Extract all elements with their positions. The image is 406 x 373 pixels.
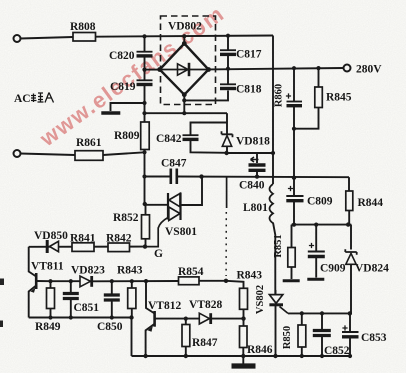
node x273 y153 (271, 151, 275, 155)
capacitor C852 (313, 331, 331, 336)
node C809 tap (292, 176, 296, 180)
node VS801 left (143, 202, 147, 206)
wire rail2 a (145, 176, 171, 178)
capacitor C850 (104, 295, 120, 300)
wire C851 top lead (70, 281, 72, 293)
wire VS801 left (145, 204, 168, 206)
wire R845 bottom (294, 108, 319, 129)
wire C808 down to rail2 (293, 106, 295, 178)
transistor VT811 (35, 273, 38, 289)
wire AC down x273 (272, 36, 274, 154)
wire gate rail (288, 312, 350, 314)
node VS802 cathode (273, 354, 277, 358)
node C809 bottom (292, 223, 296, 227)
wire C840 bottom (256, 170, 258, 176)
diode VD823 (80, 276, 91, 287)
capacitor C808 (electrolytic) (287, 102, 303, 106)
node ground tap (241, 354, 245, 358)
node C851 top (69, 279, 73, 283)
wire x273 to L801 (272, 153, 274, 184)
wire R850 bottom lead (301, 347, 303, 356)
wire C851 bottom lead (70, 299, 72, 318)
wire VD824 bottom lead (350, 264, 351, 313)
diode VT828 (199, 313, 209, 324)
node VT812 emitter bottom (143, 354, 147, 358)
wire rail4 down (131, 318, 133, 357)
capacitor C820 (137, 52, 153, 56)
wire VT812 collector (146, 281, 155, 313)
node y113 (142, 111, 146, 115)
bridge center line (160, 69, 209, 71)
node bridge top vertex (182, 41, 187, 46)
wire VT811 collector (29, 247, 37, 277)
capacitor C842 (183, 135, 199, 139)
wire R847 top lead (185, 319, 187, 325)
VT812 emitter arrow (148, 326, 153, 332)
node C850 top (110, 279, 114, 283)
wire VS802 cathode down (275, 305, 277, 356)
terminal 280V (344, 65, 351, 72)
capacitor C818 (220, 84, 236, 88)
ground left (101, 111, 120, 114)
polarity + C853 (342, 325, 347, 330)
resistor R846 (240, 326, 248, 348)
resistor R842 (108, 243, 130, 252)
resistor R809 (141, 122, 150, 150)
node R861 join (142, 150, 146, 154)
node R845 tap (316, 66, 320, 70)
capacitor C819 (137, 80, 153, 84)
wire AC2 to R861 (20, 154, 75, 156)
triac VS801 (168, 193, 181, 221)
node C852 bottom (320, 354, 324, 358)
polarity + C909 (309, 243, 314, 248)
wire to VD818 (226, 113, 228, 134)
wire L801 to VS802 (273, 223, 275, 295)
wire bottom rail (132, 355, 352, 357)
transistor VT812 (153, 311, 156, 327)
wire R861 to node (103, 152, 145, 155)
wire R847 bottom lead (185, 347, 187, 357)
wire y153 (227, 152, 273, 154)
wire R849 top lead (50, 281, 52, 288)
node R850 bottom (300, 354, 304, 358)
node R850 top (300, 311, 304, 315)
wire to ground left (111, 103, 145, 111)
ground main (232, 363, 256, 368)
wire C809 top lead (293, 178, 295, 196)
wire rail2 to R844 (348, 177, 350, 191)
bridge inner diode (178, 64, 189, 75)
wire down to VS801 node (144, 177, 146, 205)
wire bridge bottom stub (183, 95, 185, 114)
node VS801 right tap (199, 174, 203, 178)
node x226 (224, 279, 228, 283)
wire y224 rail (292, 224, 352, 226)
wire R854 to node (199, 280, 226, 282)
wire R808 to top-right corner (96, 36, 274, 37)
polarity + C809 (288, 186, 293, 191)
wire rail to R845 (318, 68, 320, 87)
wire VT811 base (36, 280, 50, 282)
capacitor C851 (63, 294, 79, 299)
wire R851 top lead (291, 225, 293, 248)
resistor R851 (288, 248, 295, 268)
wire R849 bottom lead (50, 309, 52, 318)
resistor R843 (right) (240, 288, 248, 309)
diode VD850 (46, 240, 49, 253)
node C853 top (348, 311, 352, 315)
resistor R844 (346, 191, 353, 211)
wire AC1 to R808 (20, 37, 73, 39)
resistor R852 (142, 215, 150, 239)
VT811 emitter arrow (31, 288, 36, 293)
bridge rectifier VD802 diamond (160, 44, 209, 95)
dashed box VD802 module (161, 16, 216, 105)
wire x226 solid part (226, 177, 228, 208)
wire C820 to C819 (144, 56, 146, 80)
wire y113 (145, 112, 228, 114)
wire rail4 (29, 317, 132, 319)
node rail2 left (142, 174, 146, 178)
wire rail to C808 (293, 68, 295, 101)
node top C820 tap (142, 34, 146, 38)
wire R844 bottom lead (348, 211, 350, 225)
resistor R847 (182, 325, 190, 347)
wire C909 bottom lead (315, 257, 317, 278)
wire base rail b (211, 318, 244, 320)
scan artifact left edge 2 (0, 321, 3, 328)
scan artifact left edge 1 (0, 279, 4, 286)
node C840 bottom tap (255, 175, 259, 179)
wire ground stub (242, 356, 244, 364)
node bridge top tap (182, 34, 186, 38)
node bridge left tap (142, 68, 146, 72)
node bridge left vertex (157, 67, 162, 72)
node gate G (143, 244, 147, 248)
node C853 bottom (348, 354, 352, 358)
resistor R861 (75, 151, 103, 161)
ground C909 (307, 278, 324, 281)
wire rail3 b (92, 280, 179, 282)
capacitor C817 (220, 50, 236, 54)
wire to C817 (227, 36, 229, 50)
node C818 bottom tap (182, 98, 186, 102)
wire R843L bottom lead (131, 309, 133, 318)
node R849 bottom (48, 315, 52, 319)
wire R851 bottom lead (291, 267, 293, 279)
wire C809 bottom lead (293, 201, 295, 225)
wire node to R852 (145, 204, 147, 215)
node bridge bottom vertex (182, 92, 187, 97)
wire C852 bottom lead (321, 336, 323, 357)
wire y247 (29, 246, 145, 248)
wire C818 bottom to bridge (184, 91, 228, 101)
node R847 bottom (184, 354, 188, 358)
wire base rail a (155, 318, 199, 320)
node C808 R845 join (292, 127, 296, 131)
wire rail2 b (177, 176, 349, 179)
wire VS802 gate (280, 307, 289, 314)
wire to bridge left vertex (145, 69, 160, 71)
node VD818 bottom (224, 151, 228, 155)
zener diode VD818 (222, 131, 233, 137)
wire x226 dotted part (225, 212, 227, 276)
node bridge right vertex (206, 67, 211, 72)
wire C853 top lead (349, 313, 351, 332)
wire C850 top lead (111, 281, 113, 295)
node R844 VD824 (346, 222, 350, 226)
wire R846 bottom (242, 348, 244, 357)
node C851 bottom (69, 315, 73, 319)
wire rail3 a (51, 280, 80, 282)
wire C819 down to R809 (144, 85, 146, 122)
wire VD818 to node (226, 146, 228, 153)
node y113 mid (182, 111, 186, 115)
wire C853 bottom lead (349, 337, 351, 356)
resistor R845 (315, 87, 323, 108)
node C852 top (320, 311, 324, 315)
terminal AC input 1 (14, 35, 21, 42)
resistor R808 (73, 33, 96, 42)
node rail4 corner (129, 315, 133, 319)
wire VS801 right up (181, 177, 203, 205)
wire R843L top lead (131, 281, 133, 288)
capacitor C847 (171, 169, 177, 185)
node VT812 collector (144, 279, 148, 283)
wire R852 to node (145, 239, 147, 247)
node C817 tap (226, 34, 230, 38)
wire 280V rail (209, 68, 344, 69)
resistor R854 (179, 277, 200, 285)
node R849 top (48, 279, 52, 283)
wire R809 to rail (144, 150, 146, 177)
resistor R850 (298, 325, 306, 347)
wire R850 top lead (301, 313, 303, 325)
node ground tap (142, 101, 146, 105)
node C850 bottom (110, 315, 114, 319)
wire bridge top stub (183, 36, 185, 43)
wire R843R to R846 (243, 309, 245, 326)
wire C817 to C818 (227, 55, 229, 84)
wire y153 to C840 (256, 153, 258, 163)
node rail C818 tap (226, 67, 230, 71)
wire C852 top lead (321, 313, 323, 330)
wire C842 top (191, 123, 228, 135)
wire VT811 emitter (29, 286, 37, 318)
wire VS802 anode stub (275, 290, 277, 295)
wire node to R843R (226, 281, 244, 289)
ground R851 (283, 279, 300, 282)
resistor R849 (47, 288, 55, 309)
wire C842 bottom (191, 140, 227, 153)
zener diode VD824 (345, 249, 356, 255)
resistor R841 (72, 243, 94, 252)
wire col to C820 (144, 36, 146, 51)
node C808 tap (292, 66, 296, 70)
wire VD824 top lead (350, 225, 352, 250)
polarity + C808 (286, 93, 291, 98)
thyristor VS802 (269, 295, 282, 304)
wire C909 top lead (315, 225, 317, 252)
terminal AC input 2 (14, 150, 21, 157)
resistor R843 (left) (128, 288, 136, 309)
scan texture (0, 0, 1, 1)
wire C850 bottom lead (111, 300, 113, 318)
wire VT812 emitter (146, 324, 155, 356)
wire VS801 gate (145, 218, 168, 247)
node C909 top (314, 223, 318, 227)
inductor L801 (270, 184, 274, 223)
node base rail right (241, 316, 245, 320)
node R843L top (130, 279, 134, 283)
node R847 top (184, 317, 188, 321)
